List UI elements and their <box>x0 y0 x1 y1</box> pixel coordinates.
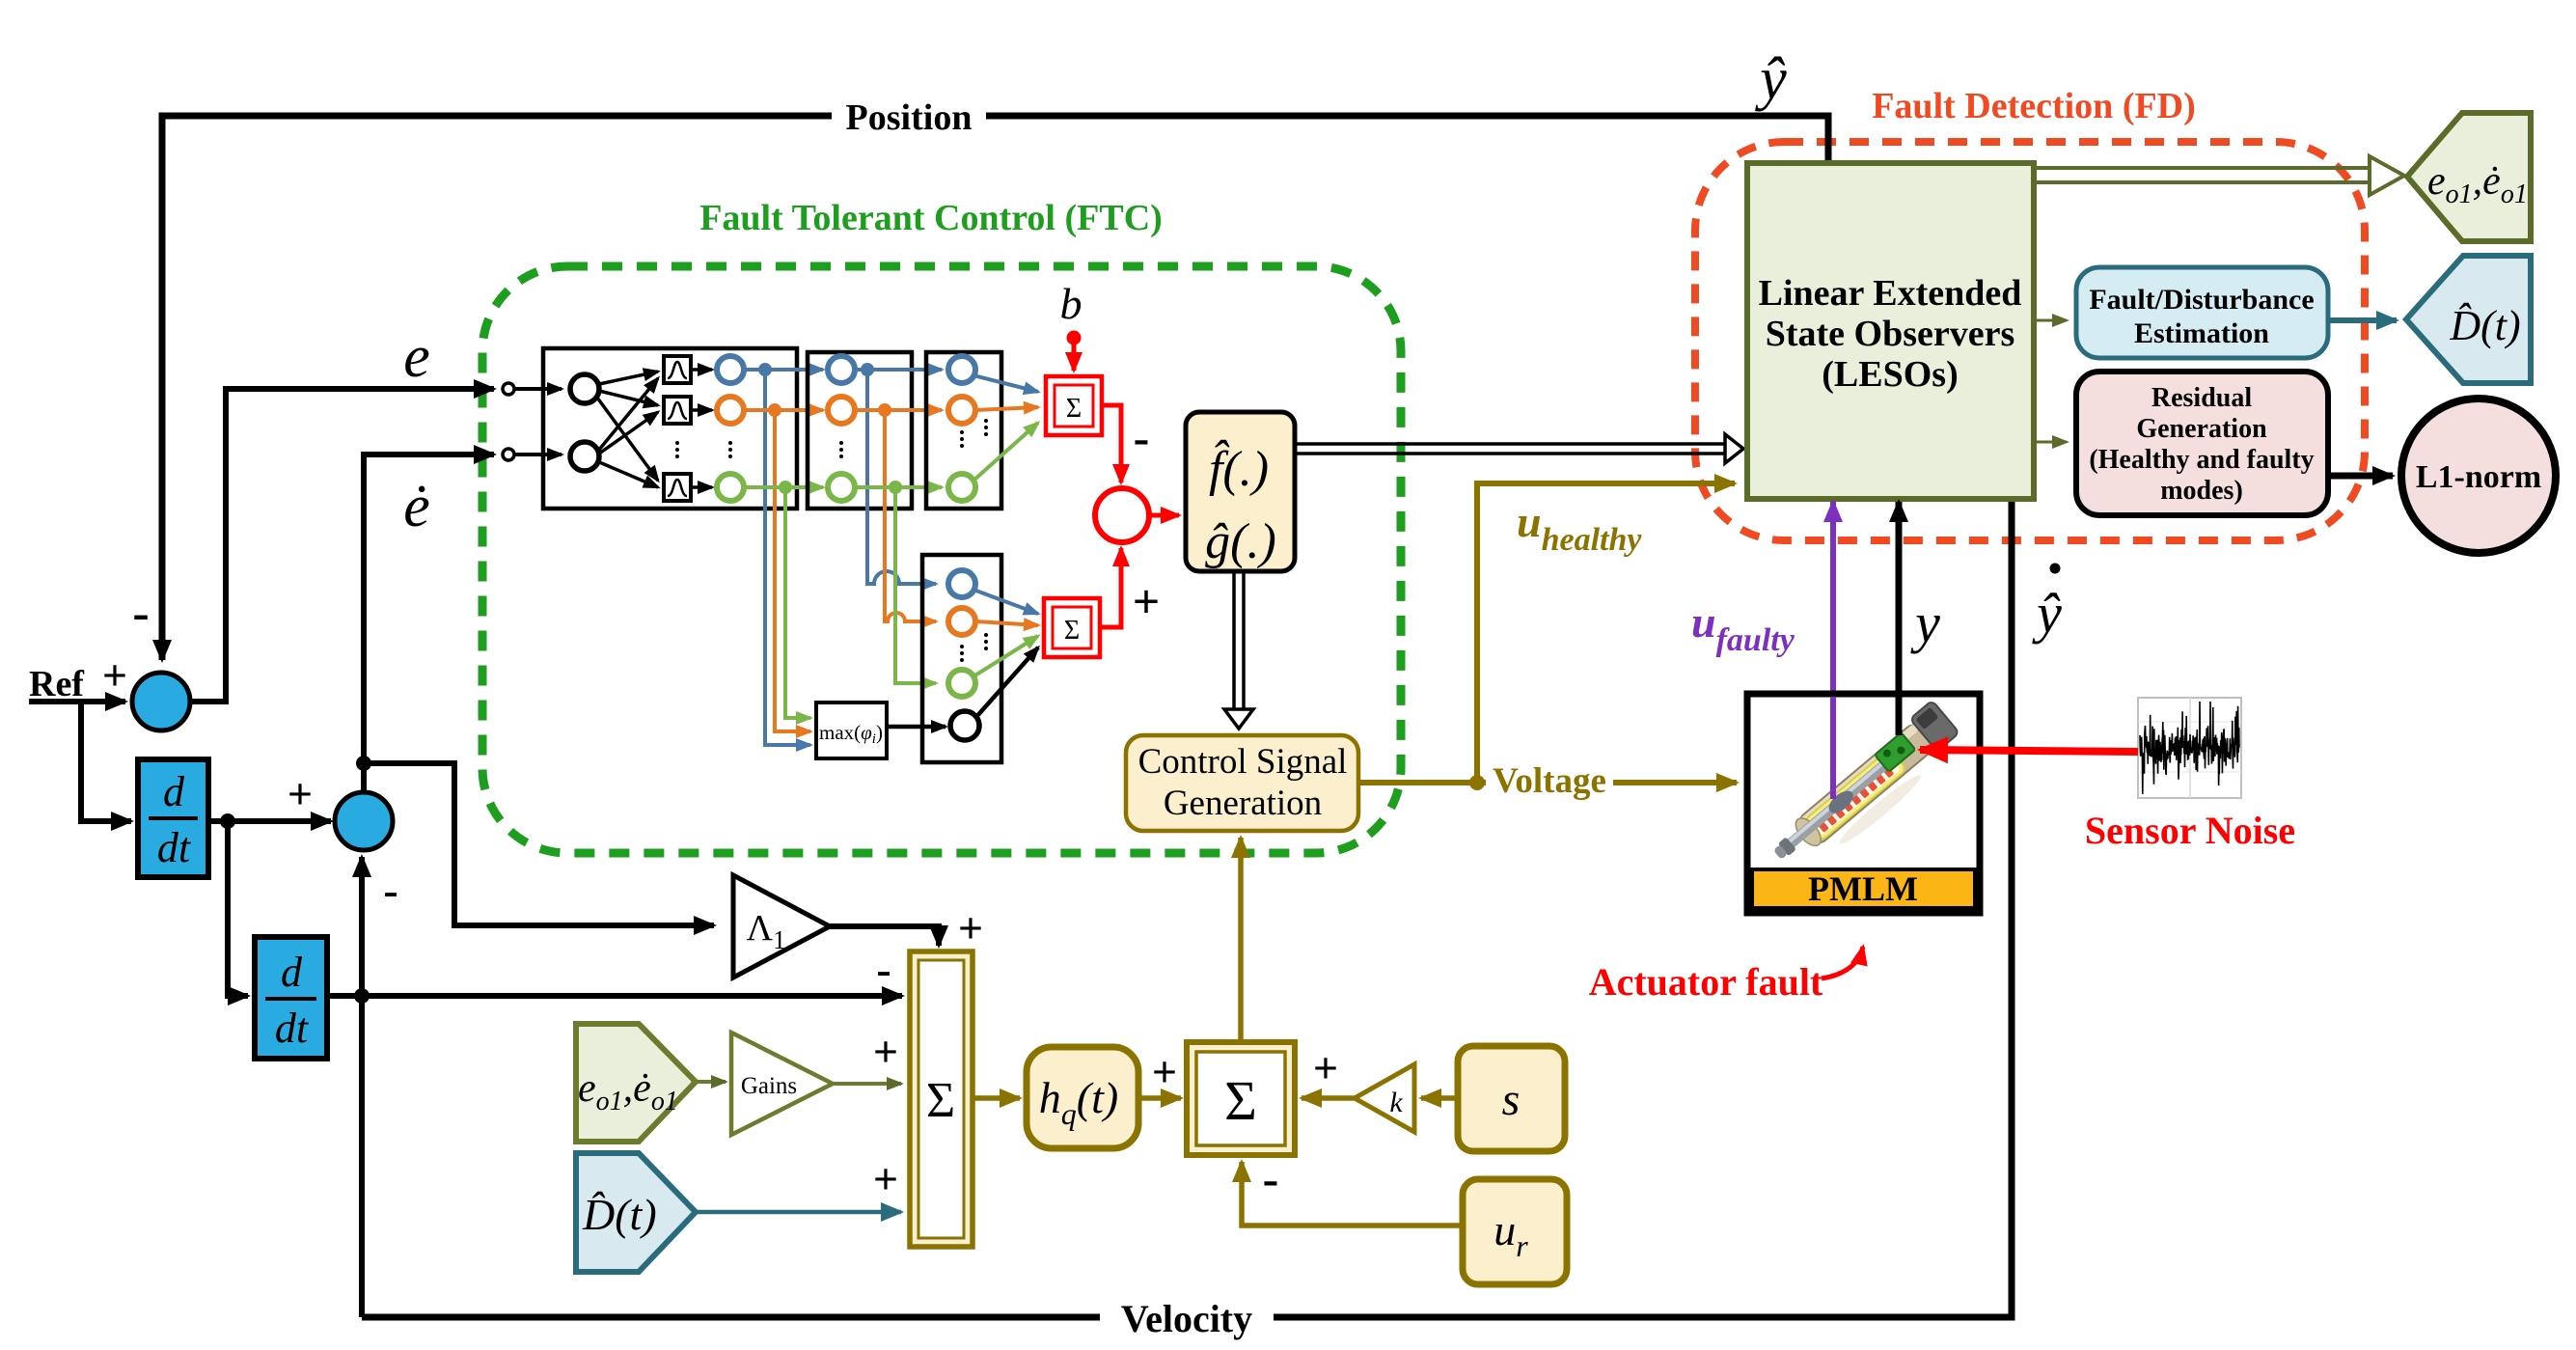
max phi box <box>816 703 887 758</box>
svg-text:+: + <box>1152 1047 1177 1096</box>
wire input1 to membership boxes <box>597 372 658 487</box>
banner PMLM <box>1752 869 1975 908</box>
block d/dt 1 <box>138 759 208 877</box>
neuron orange L3 <box>948 397 975 424</box>
FTC dashed boundary box <box>482 266 1401 853</box>
svg-text:PMLM: PMLM <box>1808 869 1918 908</box>
NN layer box 2 <box>808 352 912 509</box>
svg-text:Voltage: Voltage <box>1493 761 1606 801</box>
wire sum1 output to e <box>188 389 494 702</box>
svg-text:(LESOs): (LESOs) <box>1822 354 1958 395</box>
svg-text:Σ: Σ <box>1224 1069 1257 1132</box>
wire Sigma tall to hq <box>973 1095 1020 1101</box>
svg-text:Fault Detection (FD): Fault Detection (FD) <box>1872 86 2196 126</box>
wire branch to d/dt2 <box>228 821 248 996</box>
membership function box 2 <box>664 397 691 424</box>
svg-text:+: + <box>1313 1043 1338 1092</box>
wire d/dt2 to Sigma tall minus <box>327 993 902 999</box>
block PMLM outer <box>1747 694 1980 913</box>
wire orange down to max <box>775 410 810 731</box>
wire blue down to lower net <box>867 370 936 584</box>
block Fault/Disturbance Estimation <box>2076 267 2328 358</box>
svg-text:Position: Position <box>846 97 973 138</box>
svg-text:-: - <box>132 586 149 641</box>
svg-text:s: s <box>1502 1074 1521 1125</box>
wire blue L1 to L2 <box>744 368 823 372</box>
svg-text:ŷ: ŷ <box>1754 46 1787 112</box>
wire u_faulty into PMLM <box>1830 697 1836 799</box>
summing junction 1 <box>132 673 190 730</box>
svg-text:D̂(t): D̂(t) <box>582 1190 657 1239</box>
node orange junction L1 <box>768 403 781 417</box>
wire Position feedback top <box>162 116 1828 660</box>
node blue junction L1 <box>758 363 772 376</box>
block s <box>1458 1046 1565 1151</box>
svg-text:Actuator fault: Actuator fault <box>1589 960 1823 1004</box>
wire blue L4 to Sigma2 <box>973 590 1038 614</box>
svg-text:ĝ(.): ĝ(.) <box>1205 514 1276 569</box>
neuron green L4 <box>948 670 975 697</box>
svg-text:+: + <box>873 1154 898 1203</box>
wire Lambda1 to Sigma tall plus <box>830 926 939 946</box>
svg-text:Ref: Ref <box>29 664 85 704</box>
wire LESOs to Residual <box>2034 441 2067 444</box>
L1-norm circle <box>2401 399 2556 553</box>
block f-hat g-hat <box>1186 412 1295 571</box>
wire y to LESOs <box>1896 502 1903 733</box>
svg-text:Sensor Noise: Sensor Noise <box>2085 809 2295 852</box>
wire Ref branch to d/dt1 <box>81 702 131 821</box>
neuron orange L2 <box>828 397 855 424</box>
svg-text:ė: ė <box>403 474 430 539</box>
wire LESOs to e_o1 pentagon double line <box>2034 156 2404 195</box>
node green junction L1 <box>779 481 792 494</box>
summing junction 2 <box>335 792 393 850</box>
summing block Sigma tall <box>910 951 973 1247</box>
svg-text:Generation: Generation <box>1164 784 1322 823</box>
node b dot <box>1067 331 1082 345</box>
summing block Sigma1 red <box>1046 376 1102 435</box>
node blue junction L2 <box>861 363 874 376</box>
svg-text:-: - <box>1134 410 1150 464</box>
svg-text:-: - <box>383 866 397 915</box>
wire k to Sigma square <box>1302 1095 1355 1101</box>
wire u_healthy <box>1477 483 1735 783</box>
membership function box 1 <box>664 356 691 383</box>
wire velocity up to sum2 minus <box>359 857 365 1317</box>
wire green L4 to Sigma2 <box>973 636 1038 676</box>
summing block Sigma square <box>1187 1042 1295 1155</box>
NN input neuron 1 <box>570 374 599 403</box>
svg-text:+: + <box>102 650 127 700</box>
wire fg down to CSG double line <box>1224 571 1253 729</box>
hidden neuron green L1 <box>717 474 744 501</box>
node e input port <box>503 383 514 395</box>
neuron blue L2 <box>828 356 855 383</box>
wire green L2 to L3 <box>855 485 942 489</box>
svg-text:L1-norm: L1-norm <box>2416 459 2541 495</box>
svg-text:b: b <box>1060 279 1082 328</box>
wire LESOs to FDE <box>2034 319 2067 322</box>
svg-text:e: e <box>403 324 430 390</box>
wire pentagon to Gains <box>696 1080 726 1084</box>
svg-text:-: - <box>1263 1151 1279 1205</box>
wire u_faulty purple <box>1830 502 1836 799</box>
wire Sigma square up to CSG <box>1238 838 1244 1041</box>
svg-text:-: - <box>876 945 891 994</box>
svg-text:Σ: Σ <box>1066 394 1082 424</box>
svg-text:Residual: Residual <box>2151 383 2252 413</box>
block u_r <box>1463 1179 1567 1284</box>
NN layer box 3 <box>926 352 1001 509</box>
node junction velocity/ddt2 <box>354 988 370 1004</box>
svg-text:ŷ: ŷ <box>2032 582 2062 645</box>
wire u_r to Sigma square minus <box>1242 1162 1463 1226</box>
neuron green L2 <box>828 474 855 501</box>
NN lower layer box 4 <box>922 555 1001 762</box>
svg-text:dt: dt <box>275 1005 310 1052</box>
gain triangle Gains <box>731 1033 833 1135</box>
wire Gains to Sigma tall <box>833 1082 901 1086</box>
svg-text:D̂(t): D̂(t) <box>2449 302 2520 349</box>
node orange junction L2 <box>878 403 891 417</box>
svg-text:Linear Extended: Linear Extended <box>1759 273 2022 314</box>
block Residual Generation <box>2076 372 2328 515</box>
svg-text:(Healthy and faulty: (Healthy and faulty <box>2089 445 2314 475</box>
svg-text:Velocity: Velocity <box>1121 1297 1252 1340</box>
wire d/dt1 to sum2 <box>208 818 331 824</box>
NN input neuron 2 <box>570 442 599 471</box>
pentagon D-hat input <box>576 1153 696 1272</box>
wire D-hat to Sigma tall <box>696 1210 901 1215</box>
summing block Sigma2 red <box>1044 598 1100 657</box>
neuron black L4 <box>950 711 979 740</box>
wire sum2 output up to e-dot <box>364 455 494 792</box>
wire FDE to D-hat pentagon <box>2328 317 2397 323</box>
wire b to Sigma1 <box>1072 343 1077 371</box>
wire e-dot branch to Lambda1 <box>364 763 714 925</box>
neuron green L3 <box>948 474 975 501</box>
node junction d/dt1 out <box>220 813 235 829</box>
wire orange L2 to L3 <box>855 408 942 412</box>
svg-text:modes): modes) <box>2160 476 2243 506</box>
neuron blue L4 <box>948 570 975 597</box>
wire e port to NN <box>515 387 562 391</box>
membership function box 3 <box>664 474 691 501</box>
block Control Signal Generation <box>1126 735 1358 831</box>
wire Ref input <box>29 699 125 704</box>
neuron blue L3 <box>948 356 975 383</box>
wire Voltage <box>1358 780 1737 785</box>
svg-text:Gains: Gains <box>741 1073 797 1099</box>
svg-text:Control Signal: Control Signal <box>1138 742 1348 782</box>
actuator graphic <box>1765 701 1968 884</box>
wire orange L1 to L2 <box>744 408 823 412</box>
wire orange L3 to Sigma1 <box>975 407 1038 410</box>
wire black L4 to Sigma2 <box>975 647 1038 718</box>
svg-text:+: + <box>288 769 313 818</box>
wire green L1 to L2 <box>744 485 823 489</box>
multiplier circle red <box>1095 488 1149 542</box>
gain triangle k <box>1355 1064 1414 1132</box>
svg-text:+: + <box>1133 574 1161 628</box>
svg-text:d: d <box>281 949 303 996</box>
FD dashed boundary box <box>1695 142 2365 540</box>
sensor noise plot <box>2138 698 2241 798</box>
wire s to k <box>1421 1095 1458 1101</box>
NN layer box 1 <box>543 348 797 509</box>
neuron orange L4 <box>948 608 975 635</box>
wire blue L2 to L3 <box>855 368 942 372</box>
wire membership to hidden neurons <box>691 370 712 487</box>
wire orange L4 to Sigma2 <box>975 621 1038 625</box>
wire green L3 to Sigma1 <box>973 423 1038 481</box>
pentagon D-hat output <box>2406 256 2531 383</box>
wire green down to max <box>785 487 810 718</box>
wire hq to Sigma square <box>1138 1095 1181 1101</box>
wire Sigma2 to multiplier circle <box>1100 548 1121 627</box>
pentagon e_o1 input <box>576 1024 696 1142</box>
svg-text:State Observers: State Observers <box>1766 314 2015 354</box>
svg-text:Estimation: Estimation <box>2134 317 2269 349</box>
wire Residual to L1-norm <box>2328 473 2393 480</box>
svg-text:Generation: Generation <box>2136 414 2267 444</box>
svg-text:Fault Tolerant Control (FTC): Fault Tolerant Control (FTC) <box>699 198 1163 238</box>
label y-hat-dot <box>2032 564 2062 646</box>
svg-text:y: y <box>1910 592 1940 654</box>
svg-text:Σ: Σ <box>926 1073 955 1128</box>
gain triangle Lambda1 <box>733 875 830 978</box>
node junction e-dot branch <box>356 756 371 771</box>
svg-text:Fault/Disturbance: Fault/Disturbance <box>2089 284 2314 316</box>
block hq(t) <box>1027 1047 1138 1148</box>
node green junction L2 <box>889 481 902 494</box>
block LESOs <box>1747 163 2034 499</box>
svg-text:Σ: Σ <box>1064 616 1080 646</box>
wire y from sensor <box>1896 697 1903 735</box>
wire Sigma1 to multiplier circle <box>1102 405 1121 482</box>
node e-dot input port <box>503 449 514 460</box>
wire max to black neuron <box>887 725 945 730</box>
svg-text:dt: dt <box>157 824 192 871</box>
wire orange down to lower net <box>885 410 936 621</box>
svg-text:+: + <box>958 903 983 952</box>
pentagon e_o1 output <box>2407 113 2531 241</box>
svg-text:f̂(.): f̂(.) <box>1209 439 1269 497</box>
hidden neuron blue L1 <box>717 356 744 383</box>
wire e-dot port to NN <box>515 453 562 456</box>
svg-text:d: d <box>163 768 185 815</box>
node junction voltage <box>1469 775 1485 790</box>
wire multiplier to fg block <box>1147 513 1179 518</box>
wire blue L3 to Sigma1 <box>973 375 1038 392</box>
wire sensor noise to PMLM red <box>1920 750 2138 752</box>
NN vertical dots <box>675 419 988 662</box>
wire green down to lower net <box>895 487 936 683</box>
svg-text:k: k <box>1389 1087 1403 1118</box>
wire Velocity bottom line <box>362 499 2012 1317</box>
wire blue down to max <box>765 370 810 745</box>
wire fg to LESOs double line <box>1295 434 1743 463</box>
block d/dt 2 <box>255 937 327 1059</box>
hidden neuron orange L1 <box>717 397 744 424</box>
arrow actuator fault curved <box>1822 947 1863 978</box>
svg-text:+: + <box>873 1027 898 1076</box>
